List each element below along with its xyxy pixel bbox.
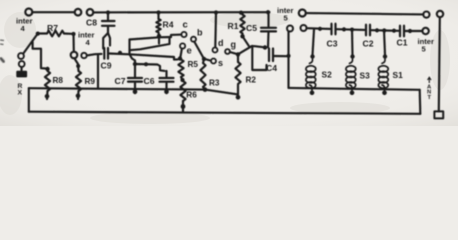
- svg-text:R9: R9: [85, 77, 96, 86]
- node d rail junction: [214, 10, 218, 14]
- wire C7 top elbow: [130, 54, 136, 63]
- node R9 bottom: [76, 94, 81, 99]
- wire right edge: [419, 90, 422, 114]
- resistor R7: [40, 32, 47, 34]
- contact transistor e: [180, 43, 185, 48]
- resistor R2: [237, 54, 239, 62]
- svg-text:C6: C6: [144, 76, 155, 86]
- coil S2: [310, 58, 313, 63]
- node C9 output junction: [118, 51, 122, 55]
- node R5 top: [178, 56, 182, 60]
- wire left edge: [28, 88, 30, 112]
- coil S1: [382, 58, 385, 63]
- wire R3-R2 bottom link: [205, 90, 238, 95]
- jack RX circle: [19, 61, 25, 67]
- wire run1 elbow down: [128, 40, 130, 55]
- wire C4 to box: [274, 55, 289, 57]
- wire contact to C9: [87, 54, 102, 56]
- contact transistor b: [191, 37, 196, 42]
- svg-text:S1: S1: [393, 70, 404, 80]
- node S1 top: [383, 54, 387, 58]
- contact inter4 throw2: [81, 53, 86, 58]
- wire e lead: [181, 49, 182, 57]
- wire R9 top lead: [74, 58, 78, 71]
- contact d: [213, 48, 218, 53]
- wire R1 diagonal lead: [243, 36, 250, 46]
- node R1 rail junction: [239, 11, 243, 15]
- svg-text:c: c: [183, 20, 188, 31]
- wire C8 fork right: [108, 33, 110, 46]
- wire main top rail: [93, 11, 269, 13]
- wire coil common rail: [289, 88, 420, 90]
- node C5-C4 node: [263, 45, 267, 49]
- svg-text:R1: R1: [228, 21, 239, 31]
- capacitor C8: [107, 13, 109, 20]
- contact transistor c: [181, 32, 186, 37]
- wire R9 bottom lead: [77, 91, 80, 99]
- node R2 bottom: [236, 95, 241, 100]
- node C8 rail junction: [106, 10, 110, 14]
- wire box left edge: [287, 56, 289, 88]
- node R8 top: [45, 67, 49, 71]
- contact inter4 pole2: [71, 52, 78, 59]
- wire C6 feeder: [135, 64, 165, 71]
- svg-text:S3: S3: [360, 71, 371, 81]
- resistor R8: [45, 71, 50, 91]
- node R9 top: [76, 64, 80, 68]
- wire riser to chain circle: [287, 32, 289, 56]
- svg-text:b: b: [197, 27, 203, 37]
- capacitor C1: [400, 26, 404, 37]
- wire R8 bottom lead: [46, 91, 49, 99]
- svg-text:g: g: [231, 40, 237, 50]
- wire R6 to bus: [182, 101, 184, 112]
- switch inter5 contact chain-left-pole: [287, 26, 293, 32]
- svg-text:C8: C8: [86, 18, 97, 28]
- wire S2 top drop: [313, 30, 315, 56]
- wire post link A-B: [32, 11, 74, 13]
- contact s: [211, 59, 216, 64]
- node C2 right junction: [375, 28, 379, 32]
- node R7 left: [36, 31, 40, 35]
- node S3 top: [350, 54, 354, 58]
- wire switch arm from b: [194, 42, 203, 58]
- node S2 tap: [318, 27, 322, 31]
- node S3 bottom: [350, 91, 355, 96]
- wire bias arm g-R2-node: [230, 46, 265, 54]
- node R1 bottom: [240, 34, 244, 38]
- svg-text:R5: R5: [188, 60, 199, 69]
- coil S3: [350, 58, 353, 63]
- svg-text:s: s: [218, 58, 223, 68]
- wire chain seg4: [405, 30, 422, 32]
- wire ground spur: [97, 54, 99, 88]
- wire antenna drop: [439, 17, 440, 111]
- wire run2 coupling: [130, 37, 170, 50]
- wire jack stem: [20, 67, 22, 71]
- antenna ground block: [434, 111, 443, 118]
- wire R4 stub down: [158, 38, 160, 44]
- capacitor C3: [332, 24, 336, 35]
- svg-text:d: d: [218, 38, 224, 48]
- node S3 tap: [350, 28, 354, 32]
- node R6 bottom: [181, 104, 186, 109]
- node C1 left junction: [392, 29, 396, 33]
- wire run to R5 top: [130, 54, 178, 59]
- node S2 top: [310, 54, 314, 58]
- svg-text:C2: C2: [363, 39, 374, 49]
- wire C8 fork left: [103, 33, 108, 49]
- resistor R5: [178, 60, 183, 78]
- wire S3 top drop: [351, 30, 354, 56]
- wire node to s: [206, 59, 210, 60]
- resistor R4: [157, 13, 159, 19]
- node R4 rail junction: [156, 10, 160, 14]
- terminal post C: [87, 9, 94, 16]
- switch inter4 pole circle: [18, 53, 24, 59]
- page edge mark: [0, 58, 5, 63]
- wire S1 top drop: [384, 30, 385, 56]
- svg-text:X: X: [18, 90, 23, 97]
- svg-text:R4: R4: [163, 20, 174, 30]
- svg-text:T: T: [428, 95, 432, 101]
- node C6 bottom: [164, 90, 169, 95]
- wire run1 base: [130, 37, 172, 40]
- wire left common rail: [29, 88, 205, 89]
- capacitor C5: [267, 13, 269, 27]
- wire ground bus: [29, 112, 421, 114]
- wire d drop: [214, 13, 217, 47]
- wire R5-R6 link: [181, 77, 183, 80]
- wire R7 drop to contact: [72, 34, 74, 52]
- node R8 bottom: [45, 94, 50, 99]
- node R3 bottom: [203, 87, 208, 92]
- wire chain seg2: [337, 28, 365, 31]
- wire C4 frame loop: [252, 47, 266, 70]
- wire R2 bottom lead: [237, 85, 239, 99]
- wire C9 to elbow: [110, 52, 130, 55]
- svg-text:e: e: [187, 46, 192, 57]
- node S1 tap: [382, 28, 386, 32]
- node C3 right junction: [342, 27, 346, 31]
- svg-text:C3: C3: [327, 39, 338, 49]
- svg-text:R7: R7: [47, 23, 58, 33]
- node feeder junction: [144, 62, 148, 66]
- capacitor C2: [366, 25, 370, 36]
- svg-text:C7: C7: [115, 76, 126, 86]
- switch inter5 contact top-left: [299, 10, 306, 17]
- svg-text:C4: C4: [266, 63, 277, 73]
- svg-text:R3: R3: [209, 78, 220, 87]
- capacitor C7: [134, 64, 136, 77]
- wire R8 feed elbow: [33, 42, 46, 69]
- node rail end C5 junction: [266, 10, 270, 14]
- wire collector feed: [171, 35, 181, 37]
- switch inter5 contact chain-right: [422, 28, 428, 34]
- resistor R6: [180, 81, 185, 101]
- svg-text:C9: C9: [101, 61, 112, 71]
- wire switch inter4 arm: [23, 34, 37, 53]
- terminal post B: [75, 9, 82, 16]
- node S2 bottom: [310, 91, 315, 96]
- jack RX body: [16, 71, 27, 78]
- node C7 bottom: [133, 90, 138, 95]
- node R2 top: [236, 52, 240, 56]
- switch inter5 contact chain-left: [301, 25, 307, 31]
- wire strap rail: [306, 13, 423, 14]
- svg-text:R2: R2: [246, 76, 257, 85]
- node S1 bottom: [382, 91, 387, 96]
- switch inter5 contact top-right: [423, 12, 429, 18]
- resistor R1: [241, 13, 243, 15]
- resistor R9: [76, 71, 81, 91]
- node R6 top: [180, 78, 184, 82]
- wire chain seg1: [307, 27, 330, 30]
- svg-text:inter: inter: [418, 37, 435, 46]
- node b-R3 node: [202, 57, 206, 61]
- svg-text:R8: R8: [53, 76, 64, 85]
- wire chain seg3: [371, 29, 398, 32]
- node R7 right: [71, 32, 75, 36]
- node C1 right junction: [408, 29, 412, 33]
- node R4 bottom: [157, 34, 161, 38]
- svg-text:C5: C5: [246, 23, 257, 33]
- antenna arrow mark: [428, 77, 432, 83]
- node C7 top: [133, 62, 137, 66]
- node C4 node: [286, 54, 290, 58]
- contact g: [225, 49, 230, 54]
- terminal antenna post: [437, 11, 443, 17]
- capacitor C6: [165, 71, 167, 77]
- svg-text:S2: S2: [322, 70, 333, 80]
- resistor R3: [203, 59, 204, 63]
- svg-text:C1: C1: [397, 38, 408, 48]
- svg-text:R6: R6: [186, 91, 197, 100]
- capacitor C9: [104, 48, 108, 59]
- terminal post A: [25, 9, 32, 16]
